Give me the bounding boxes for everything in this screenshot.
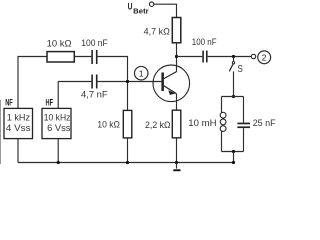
capacitor 25 nF (tank)	[237, 97, 276, 152]
node 2 marker	[258, 51, 271, 64]
svg-text:25 nF: 25 nF	[253, 118, 276, 128]
svg-text:1: 1	[139, 69, 144, 79]
edge artifact line	[0, 100, 2, 164]
junction dot LC top	[232, 95, 235, 98]
junction dot rail right end	[232, 161, 235, 164]
svg-text:10 kΩ: 10 kΩ	[97, 120, 120, 130]
svg-text:1 kHz: 1 kHz	[7, 113, 31, 123]
LC tank bottom bar	[222, 151, 244, 153]
svg-text:100 nF: 100 nF	[192, 37, 217, 47]
svg-text:4,7 kΩ: 4,7 kΩ	[144, 26, 171, 36]
capacitor 100 nF (output coupling)	[192, 37, 217, 62]
wire: resistor to capacitor top row	[74, 56, 91, 58]
wire: LC bottom to rail	[233, 152, 235, 163]
wire: below base resistor to rail	[127, 138, 129, 163]
node 1 marker	[134, 66, 148, 80]
junction dot switch node	[232, 55, 235, 58]
svg-text:4,7 nF: 4,7 nF	[81, 89, 108, 99]
output terminal circle	[251, 54, 255, 58]
wire: emitter down to resistor	[176, 94, 178, 110]
svg-text:100 nF: 100 nF	[81, 38, 108, 48]
svg-text:U: U	[128, 2, 133, 12]
junction dot collector node	[175, 55, 178, 58]
junction dot LC bottom	[232, 150, 235, 153]
svg-text:NF: NF	[5, 97, 13, 108]
supply terminal U_Betr	[128, 2, 154, 16]
resistor 10 kOhm (series, top row)	[47, 38, 75, 62]
switch S	[229, 57, 243, 97]
HF generator box	[42, 97, 71, 138]
ground symbol	[173, 163, 180, 172]
wire: below emitter resistor to rail	[176, 138, 178, 163]
resistor 10 kOhm (base to ground)	[97, 110, 131, 137]
svg-text:HF: HF	[46, 97, 54, 108]
junction dot rail HF	[57, 161, 60, 164]
svg-text:10 kΩ: 10 kΩ	[47, 38, 72, 48]
svg-text:2,2 kΩ: 2,2 kΩ	[145, 120, 171, 130]
wire: capacitor to output terminal	[208, 56, 252, 58]
wire: NF branch vertical and bottom	[18, 57, 47, 163]
capacitor 100 nF (top left coupling)	[81, 38, 108, 64]
svg-text:6 Vss: 6 Vss	[47, 123, 71, 133]
junction dot rail base resistor	[126, 161, 129, 164]
transistor Q1	[153, 65, 190, 102]
svg-text:S: S	[237, 64, 243, 75]
svg-text:10 kHz: 10 kHz	[44, 113, 71, 123]
wire: base row from cap to transistor base	[98, 81, 162, 83]
ground rail	[18, 162, 234, 164]
capacitor 4,7 nF (HF coupling)	[81, 75, 108, 100]
resistor 2,2 kOhm (emitter)	[145, 110, 181, 138]
wire: collector node to output capacitor	[177, 56, 203, 58]
svg-text:10 mH: 10 mH	[188, 118, 216, 128]
junction dot rail emitter	[175, 161, 178, 164]
wire: collector column	[176, 43, 178, 72]
svg-text:4 Vss: 4 Vss	[6, 123, 31, 133]
wire: HF branch vertical	[58, 82, 91, 163]
resistor 4,7 kOhm (collector)	[144, 18, 181, 43]
LC tank top bar	[222, 96, 244, 98]
wire: capacitor to base bus	[98, 57, 128, 111]
node junction dot (base bus)	[126, 80, 129, 83]
NF generator box	[4, 97, 33, 138]
inductor 10 mH	[188, 97, 226, 152]
wire: supply to collector resistor	[154, 4, 177, 17]
svg-text:Betr: Betr	[133, 8, 149, 15]
svg-text:2: 2	[262, 53, 267, 63]
